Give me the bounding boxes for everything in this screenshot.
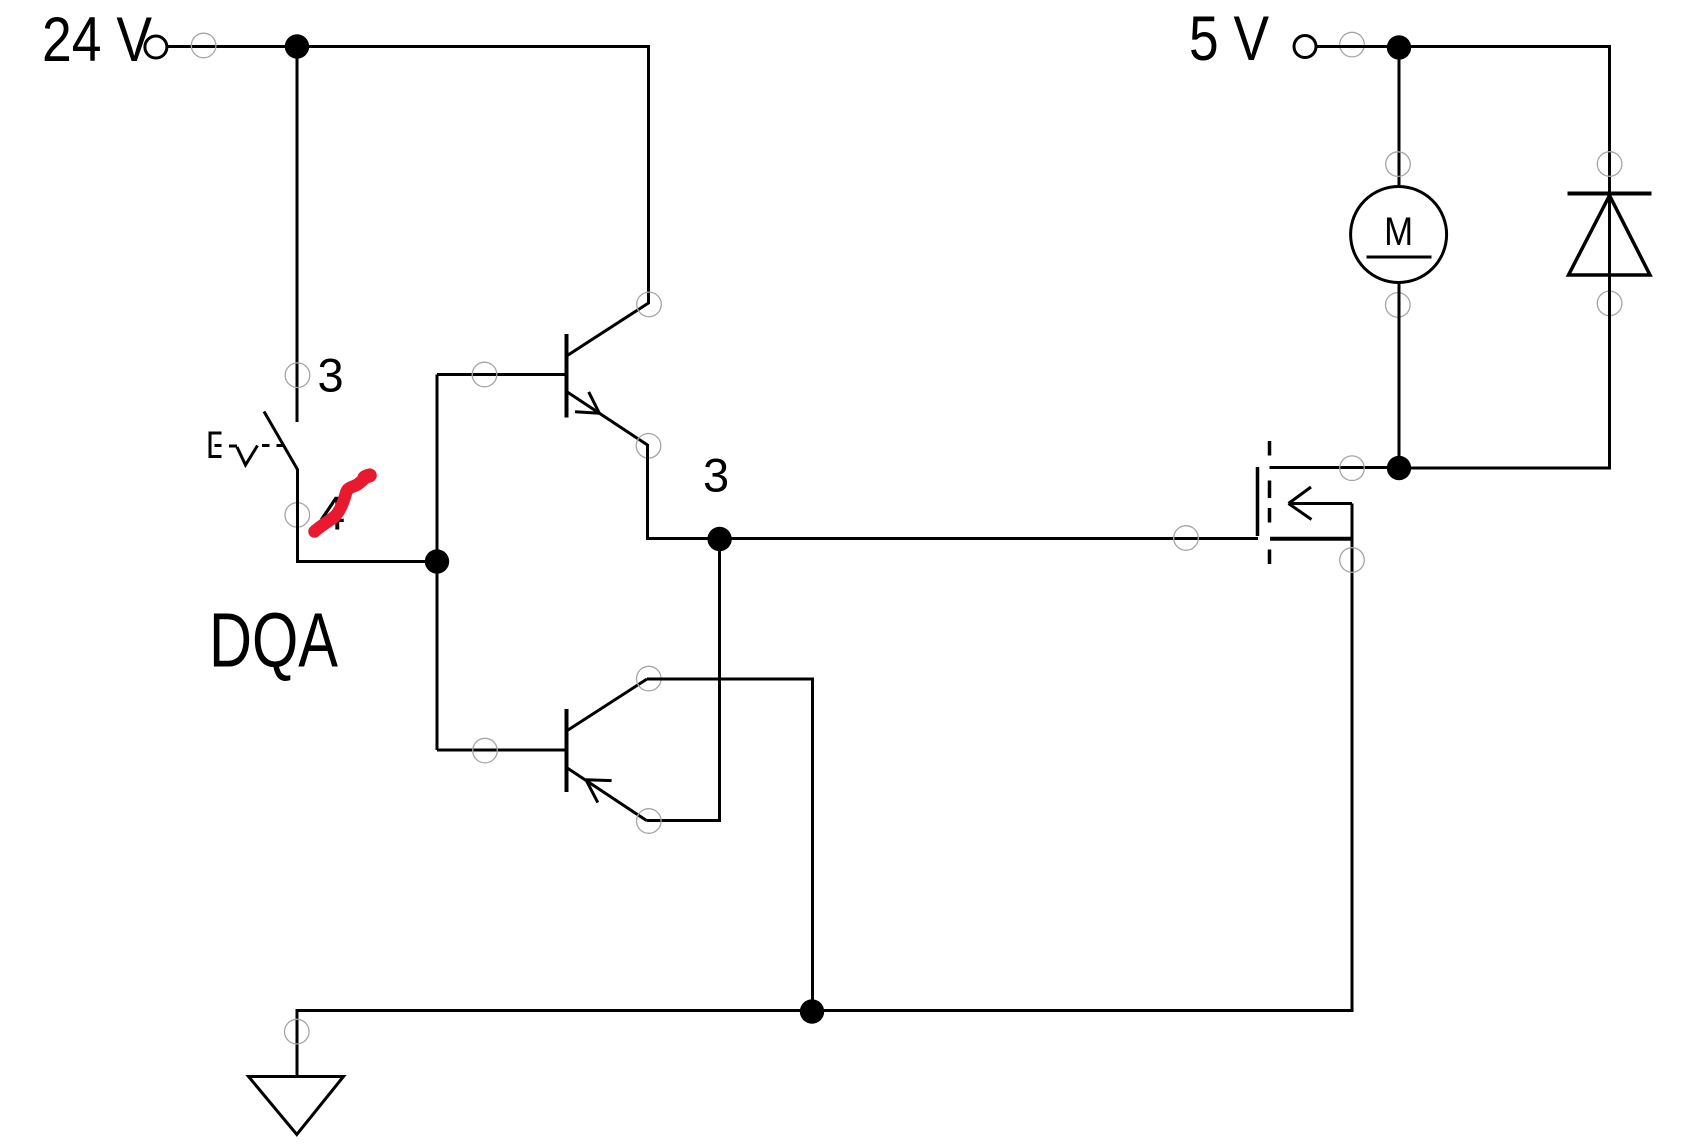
wire 24V rail top xyxy=(167,47,649,305)
junction 24V rail xyxy=(285,34,309,58)
wire node 3 to gate xyxy=(720,537,1259,540)
pin marker gray source xyxy=(1340,548,1365,573)
pin marker gray ground xyxy=(285,1019,310,1044)
wire motor to drain node xyxy=(1398,281,1401,468)
mosfet Q3 xyxy=(1258,441,1400,564)
junction 5V rail xyxy=(1387,35,1411,59)
transistor Q2 xyxy=(567,679,648,821)
junction base bus xyxy=(425,549,449,573)
wire Q1 base xyxy=(437,373,565,376)
pin marker gray Q2 emitter xyxy=(637,809,662,834)
pin marker gray diode bottom xyxy=(1597,291,1622,316)
switch actuator chevron xyxy=(237,446,258,466)
wire diode to drain node xyxy=(1399,194,1610,469)
wire bottom rail xyxy=(297,504,1352,1077)
pin marker gray 5V xyxy=(1340,32,1365,57)
wire 5V rail xyxy=(1317,47,1610,194)
junction bottom rail xyxy=(800,999,824,1023)
wire Q2 collector to bottom rail xyxy=(647,679,813,1011)
pin marker gray switch top xyxy=(285,363,310,388)
terminal 5V xyxy=(1294,36,1316,58)
svg-text:3: 3 xyxy=(703,449,729,502)
switch actuator dash 1 xyxy=(229,445,237,448)
junction drain node xyxy=(1387,456,1411,480)
diode D1 xyxy=(1568,194,1652,276)
switch S1 blade xyxy=(264,412,298,470)
wire 24V down to switch xyxy=(296,47,299,423)
pin marker gray motor bottom xyxy=(1386,293,1411,318)
wire switch to junction xyxy=(298,469,438,562)
wire Q1 emitter to node 3 xyxy=(648,444,720,539)
wire Q2 base xyxy=(437,749,565,752)
pin marker gray switch bottom xyxy=(285,503,310,528)
svg-text:5 V: 5 V xyxy=(1189,4,1269,74)
svg-text:3: 3 xyxy=(318,349,344,402)
wire base bus vertical xyxy=(436,375,439,751)
pin marker gray Q1 emitter xyxy=(636,434,661,459)
switch actuator dash 2 xyxy=(262,444,270,447)
ground xyxy=(249,1077,344,1135)
pin marker gray gate wire xyxy=(1174,526,1199,551)
svg-text:DQA: DQA xyxy=(209,598,338,684)
svg-text:24 V: 24 V xyxy=(42,5,152,75)
switch actuator label E xyxy=(210,433,222,457)
pin marker gray Q1 base xyxy=(472,362,497,387)
pin marker gray Q1 collector xyxy=(637,292,662,317)
pin marker gray Q2 base xyxy=(473,738,498,763)
pin marker gray drain xyxy=(1340,456,1365,481)
motor M1 xyxy=(1351,187,1447,283)
pin marker gray diode top xyxy=(1597,152,1622,177)
junction node 3 xyxy=(707,527,731,551)
red annotation stroke xyxy=(315,475,370,531)
transistor Q1 xyxy=(567,303,649,445)
svg-text:M: M xyxy=(1384,210,1413,254)
wire 5V to motor xyxy=(1398,47,1401,189)
pin marker gray 24V xyxy=(191,33,216,58)
switch actuator dash 3 xyxy=(277,444,284,447)
pin marker gray motor top xyxy=(1386,152,1411,177)
wire node 3 down to Q2 emitter xyxy=(647,539,720,821)
pin marker gray Q2 collector xyxy=(637,666,662,691)
terminal 24V xyxy=(145,36,167,58)
